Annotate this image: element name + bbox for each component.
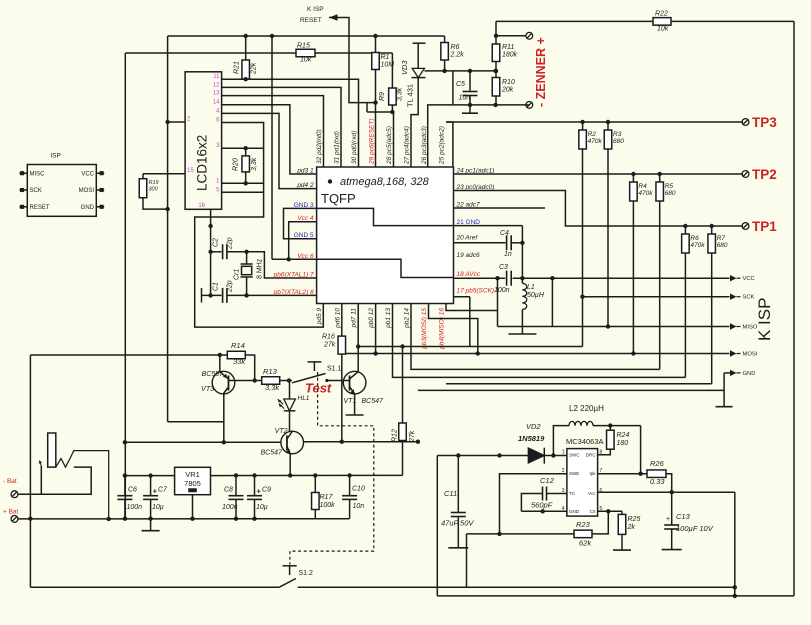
svg-text:K ISP: K ISP <box>755 298 774 341</box>
svg-text:Cr1: Cr1 <box>234 269 241 280</box>
svg-text:470k: 470k <box>690 242 705 249</box>
svg-text:50µH: 50µH <box>527 292 545 299</box>
svg-text:20k: 20k <box>501 87 514 94</box>
svg-text:32 pd2(int0): 32 pd2(int0) <box>316 129 323 164</box>
svg-text:SWE: SWE <box>569 471 579 476</box>
svg-text:1: 1 <box>562 450 565 456</box>
svg-text:- Bat: - Bat <box>3 478 17 485</box>
svg-text:RESET: RESET <box>30 205 50 211</box>
svg-text:R15: R15 <box>297 43 310 50</box>
svg-text:BC547: BC547 <box>261 450 284 457</box>
svg-text:12: 12 <box>213 82 220 88</box>
svg-text:470k: 470k <box>588 138 603 145</box>
svg-text:10k: 10k <box>300 57 312 64</box>
svg-text:R14: R14 <box>231 341 245 350</box>
svg-text:MC34063A: MC34063A <box>566 437 604 446</box>
svg-text:HL1: HL1 <box>298 395 310 402</box>
svg-text:1n: 1n <box>504 251 512 258</box>
svg-text:Vcc 4: Vcc 4 <box>297 215 314 222</box>
svg-text:100n: 100n <box>494 287 510 294</box>
svg-text:100n: 100n <box>127 504 143 511</box>
svg-text:pd5 9: pd5 9 <box>316 308 323 326</box>
svg-text:C4: C4 <box>500 230 509 237</box>
svg-text:L1: L1 <box>527 284 535 291</box>
svg-text:GND 3: GND 3 <box>294 202 314 209</box>
svg-text:R2: R2 <box>588 131 597 138</box>
svg-text:180k: 180k <box>502 52 518 59</box>
svg-text:GND: GND <box>81 205 95 211</box>
svg-text:R12: R12 <box>392 429 399 442</box>
svg-text:MISC: MISC <box>30 171 46 177</box>
svg-text:20 Aref: 20 Aref <box>456 235 479 242</box>
svg-text:C6: C6 <box>128 487 137 494</box>
svg-text:7805: 7805 <box>184 479 201 488</box>
svg-text:C1: C1 <box>213 282 220 291</box>
svg-text:C9: C9 <box>262 487 271 494</box>
svg-text:C3: C3 <box>499 264 508 271</box>
svg-text:C12: C12 <box>540 476 555 485</box>
svg-text:27k: 27k <box>323 342 336 349</box>
svg-text:3,3k: 3,3k <box>251 157 258 171</box>
svg-text:TL 431: TL 431 <box>406 84 415 107</box>
svg-text:10µ: 10µ <box>152 504 164 511</box>
svg-text:R23: R23 <box>576 520 591 529</box>
svg-text:GND 5: GND 5 <box>294 232 314 239</box>
svg-text:BC557: BC557 <box>202 371 225 378</box>
svg-text:680: 680 <box>665 190 676 197</box>
svg-text:28 pc5(adc5): 28 pc5(adc5) <box>386 126 393 165</box>
svg-text:33k: 33k <box>233 357 246 366</box>
svg-text:29 pc6(RESET): 29 pc6(RESET) <box>369 118 376 165</box>
svg-text:3,3k: 3,3k <box>265 383 280 392</box>
svg-text:R25: R25 <box>628 516 641 523</box>
svg-text:Vcc: Vcc <box>588 491 596 496</box>
svg-text:TP1: TP1 <box>752 219 777 234</box>
svg-text:R6: R6 <box>690 235 699 242</box>
svg-text:27 pc4(adc4): 27 pc4(adc4) <box>404 126 411 165</box>
svg-text:R10: R10 <box>502 79 515 86</box>
svg-text:- ZENNER +: - ZENNER + <box>534 37 548 107</box>
svg-text:VR1: VR1 <box>185 470 200 479</box>
svg-text:680: 680 <box>613 138 624 145</box>
svg-text:14: 14 <box>213 100 220 106</box>
svg-text:pb0 12: pb0 12 <box>368 308 375 329</box>
svg-text:R4: R4 <box>638 183 647 190</box>
svg-text:VT3: VT3 <box>201 386 214 393</box>
svg-text:180: 180 <box>617 440 629 447</box>
svg-text:R9: R9 <box>379 92 386 101</box>
svg-text:pb1 13: pb1 13 <box>385 308 392 329</box>
svg-text:Ipk: Ipk <box>589 471 596 476</box>
svg-text:R3: R3 <box>613 131 622 138</box>
svg-text:pb3(MOSI) 15: pb3(MOSI) 15 <box>421 308 428 350</box>
svg-text:R26: R26 <box>650 459 665 468</box>
svg-text:22p: 22p <box>227 237 234 250</box>
svg-text:100µF 10V: 100µF 10V <box>676 524 714 533</box>
svg-text:C8: C8 <box>224 487 233 494</box>
svg-text:C13: C13 <box>676 512 691 521</box>
svg-text:R1: R1 <box>381 54 390 61</box>
svg-text:VT1: VT1 <box>344 398 357 405</box>
svg-text:SCK: SCK <box>743 295 755 301</box>
svg-text:C10: C10 <box>352 486 365 493</box>
svg-text:LCD16x2: LCD16x2 <box>195 135 210 191</box>
svg-text:10k: 10k <box>657 26 669 33</box>
svg-text:10n: 10n <box>459 95 471 102</box>
svg-text:R24: R24 <box>617 432 630 439</box>
svg-text:3,3k: 3,3k <box>397 87 404 101</box>
svg-text:8 MHz: 8 MHz <box>257 258 264 279</box>
svg-text:31 pd1(txd): 31 pd1(txd) <box>334 131 341 164</box>
svg-text:TP2: TP2 <box>752 167 777 182</box>
svg-text:BC547: BC547 <box>362 398 385 405</box>
svg-text:VD2: VD2 <box>526 422 541 431</box>
svg-text:62k: 62k <box>579 539 592 548</box>
svg-text:SWC: SWC <box>569 453 580 458</box>
svg-text:C5: C5 <box>456 81 465 88</box>
svg-text:R6: R6 <box>451 44 460 51</box>
svg-text:GND: GND <box>743 371 756 377</box>
svg-text:R11: R11 <box>502 44 514 51</box>
svg-text:R16: R16 <box>322 334 335 341</box>
svg-text:RESET: RESET <box>300 17 322 24</box>
svg-text:pb7(XTAL2) 8: pb7(XTAL2) 8 <box>273 289 314 296</box>
svg-text:pd7 11: pd7 11 <box>351 308 358 329</box>
svg-text:VD3: VD3 <box>400 60 409 75</box>
svg-text:C11: C11 <box>444 489 457 498</box>
svg-text:300: 300 <box>149 187 159 193</box>
svg-text:Test: Test <box>305 381 332 396</box>
svg-text:pd4 2: pd4 2 <box>296 182 314 189</box>
svg-text:R20: R20 <box>233 158 240 171</box>
svg-text:MOSI: MOSI <box>79 188 95 194</box>
svg-text:atmega8,168, 328: atmega8,168, 328 <box>340 176 430 188</box>
svg-text:MOSI: MOSI <box>743 352 758 358</box>
svg-text:C2: C2 <box>213 238 220 247</box>
svg-text:0.33: 0.33 <box>650 477 665 486</box>
svg-text:R5: R5 <box>665 183 674 190</box>
svg-text:15: 15 <box>187 168 194 174</box>
svg-text:11: 11 <box>213 74 220 80</box>
svg-text:VCC: VCC <box>743 276 755 282</box>
svg-text:ISP: ISP <box>50 153 60 160</box>
svg-text:22k: 22k <box>251 62 258 75</box>
svg-text:TQFP: TQFP <box>321 191 356 206</box>
svg-text:+: + <box>257 487 262 496</box>
svg-text:+: + <box>153 487 158 496</box>
svg-text:17 pb5(SCK): 17 pb5(SCK) <box>457 288 495 295</box>
svg-text:560pF: 560pF <box>531 501 553 510</box>
svg-text:680: 680 <box>717 242 728 249</box>
svg-text:pd3 1: pd3 1 <box>296 168 314 175</box>
svg-text:TC: TC <box>569 491 576 496</box>
svg-text:S1.1: S1.1 <box>327 366 342 373</box>
svg-text:22p: 22p <box>227 280 234 293</box>
svg-text:+ Bat: + Bat <box>3 509 19 516</box>
svg-text:18 AVcc: 18 AVcc <box>457 271 481 278</box>
svg-text:R19: R19 <box>149 180 159 186</box>
svg-text:L2 220µH: L2 220µH <box>569 404 604 413</box>
svg-text:GND: GND <box>569 509 580 514</box>
svg-text:100n: 100n <box>222 504 238 511</box>
svg-text:R21: R21 <box>234 61 241 74</box>
svg-text:10µ: 10µ <box>256 504 268 511</box>
svg-text:pb4(MISO) 16: pb4(MISO) 16 <box>439 308 446 350</box>
svg-text:TP3: TP3 <box>752 115 777 130</box>
svg-text:DRC: DRC <box>586 453 596 458</box>
svg-text:470k: 470k <box>638 190 653 197</box>
svg-text:16: 16 <box>198 203 205 209</box>
svg-text:R13: R13 <box>263 367 278 376</box>
svg-text:VT2: VT2 <box>275 428 288 435</box>
svg-text:VCC: VCC <box>81 171 94 177</box>
svg-text:R22: R22 <box>655 11 668 18</box>
svg-text:Vcc 6: Vcc 6 <box>297 253 314 260</box>
svg-text:13: 13 <box>213 91 220 97</box>
svg-text:S1.2: S1.2 <box>299 570 314 577</box>
svg-text:R17: R17 <box>320 494 334 501</box>
svg-text:47uF 50V: 47uF 50V <box>441 519 474 528</box>
svg-text:2.2k: 2.2k <box>450 52 465 59</box>
svg-text:pb6(XTAL1) 7: pb6(XTAL1) 7 <box>273 272 314 279</box>
svg-text:19 adc6: 19 adc6 <box>457 252 481 259</box>
svg-text:30 pd0(rxd): 30 pd0(rxd) <box>351 131 358 164</box>
svg-text:SCK: SCK <box>30 188 42 194</box>
svg-text:CII: CII <box>590 509 596 514</box>
svg-text:pb2 14: pb2 14 <box>404 308 411 329</box>
svg-text:2k: 2k <box>627 524 636 531</box>
svg-text:100k: 100k <box>320 502 336 509</box>
svg-text:25 pc2(adc2): 25 pc2(adc2) <box>439 126 446 165</box>
svg-text:6: 6 <box>600 488 603 494</box>
svg-text:pd6 10: pd6 10 <box>334 308 341 329</box>
svg-text:R7: R7 <box>717 235 726 242</box>
svg-text:10n: 10n <box>353 503 365 510</box>
svg-text:1N5819: 1N5819 <box>518 434 545 443</box>
svg-text:K ISP: K ISP <box>307 6 324 13</box>
svg-text:+: + <box>666 516 670 523</box>
svg-text:C7: C7 <box>158 487 168 494</box>
